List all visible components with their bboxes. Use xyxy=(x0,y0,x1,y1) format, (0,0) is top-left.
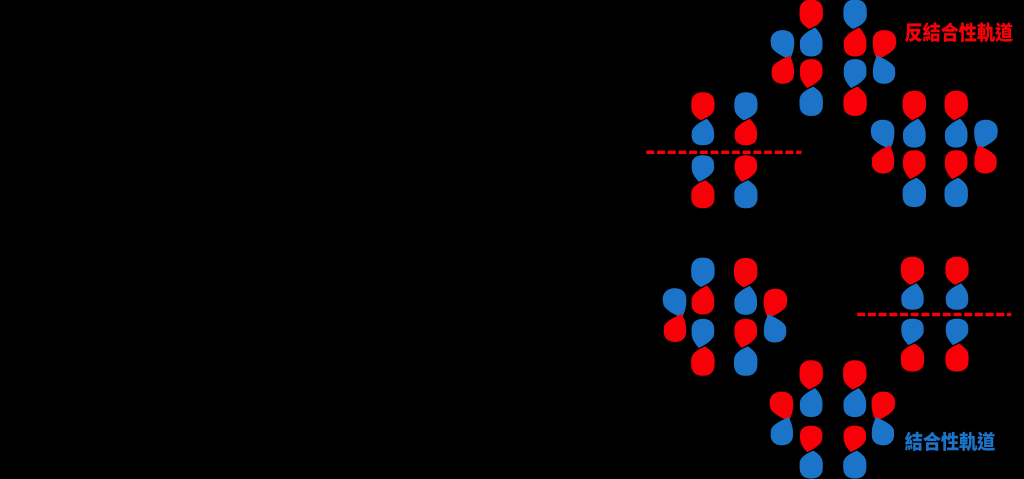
p-orbital G1 ethylene left xyxy=(800,59,823,116)
p-orbital G2 bottom-right xyxy=(734,155,757,208)
orbital group psi4 + pi-star : fully antibonding (top) xyxy=(771,0,897,116)
p-orbital G4 terminal left xyxy=(663,288,687,342)
p-orbital G5 top-right xyxy=(945,257,968,310)
label: anti-bonding orbitals (red) xyxy=(905,22,1013,42)
orbital group psi3 + pi (mid-right) xyxy=(871,91,998,207)
p-orbital G2 bottom-left xyxy=(691,155,714,208)
p-orbital G1 diene inner-left xyxy=(800,0,823,57)
dashed node line G2 xyxy=(646,151,801,154)
p-orbital G6 terminal left xyxy=(770,392,794,446)
p-orbital G3 terminal right xyxy=(974,120,998,174)
p-orbital G3 ethylene left xyxy=(903,150,926,207)
p-orbital G3 diene inner-left xyxy=(903,91,926,148)
dashed node line G5 xyxy=(857,313,1011,316)
p-orbital G1 ethylene right xyxy=(843,59,866,116)
p-orbital G4 diene inner-left xyxy=(691,258,714,315)
p-orbital G2 top-left xyxy=(691,92,714,145)
p-orbital G5 top-left xyxy=(901,257,924,310)
p-orbital G4 terminal right xyxy=(764,289,788,343)
p-orbital G6 terminal right xyxy=(872,392,896,446)
p-orbital G5 bottom-right xyxy=(945,319,968,372)
p-orbital G3 ethylene right xyxy=(945,150,968,207)
orbital group pi-star/pi-star (mid-left) with nodal dashed line xyxy=(646,92,801,208)
p-orbital G6 ethylene left xyxy=(800,426,823,479)
p-orbital G2 top-right xyxy=(734,92,757,145)
orbital group psi1 + pi : fully bonding (bottom) xyxy=(770,360,896,478)
p-orbital G4 ethylene right xyxy=(734,319,757,376)
p-orbital G1 diene inner-right xyxy=(843,0,866,57)
p-orbital G1 terminal left xyxy=(771,30,795,84)
label: bonding orbitals (blue) xyxy=(905,432,995,451)
p-orbital G6 diene inner-left xyxy=(800,360,823,417)
p-orbital G3 diene inner-right xyxy=(945,91,968,148)
p-orbital G6 ethylene right xyxy=(843,426,866,479)
p-orbital G4 ethylene left xyxy=(691,319,714,376)
p-orbital G6 diene inner-right xyxy=(843,360,866,417)
p-orbital G4 diene inner-right xyxy=(734,258,757,315)
p-orbital G5 bottom-left xyxy=(901,319,924,372)
p-orbital G3 terminal left xyxy=(871,120,895,174)
orbital group psi2 + pi-star (low-left) xyxy=(663,258,788,376)
orbital group pi/pi (low-right) with nodal dashed line xyxy=(857,257,1011,372)
p-orbital G1 terminal right xyxy=(873,30,897,84)
